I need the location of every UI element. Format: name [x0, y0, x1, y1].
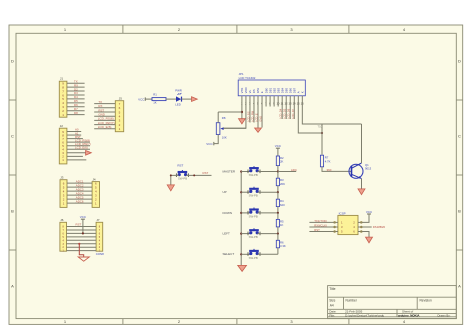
svg-text:RST: RST	[177, 164, 183, 168]
svg-text:LCD_E(6): LCD_E(6)	[98, 125, 112, 129]
svg-text:C: C	[11, 134, 14, 139]
svg-text:A: A	[11, 284, 14, 289]
svg-text:SW-PB: SW-PB	[249, 214, 258, 218]
wire button left to ground	[171, 175, 179, 185]
svg-text:J6: J6	[60, 218, 64, 222]
svg-text:Revision: Revision	[420, 298, 432, 302]
svg-text:9013: 9013	[365, 167, 372, 171]
connector J2	[59, 128, 67, 164]
wire button right	[186, 174, 212, 176]
power arrow J2 pin7	[86, 151, 92, 156]
svg-text:VCC: VCC	[275, 144, 282, 148]
wire to button SW4	[241, 212, 250, 214]
svg-text:SELECT: SELECT	[223, 252, 235, 256]
pushbutton SW6	[247, 252, 249, 256]
wire R1 to LED	[166, 98, 176, 100]
pushbutton SW4	[247, 211, 249, 215]
svg-text:RX0(CLK): RX0(CLK)	[314, 223, 327, 227]
svg-text:2K: 2K	[280, 160, 284, 164]
svg-text:J7: J7	[96, 218, 100, 222]
wire LCD pin3	[249, 96, 251, 123]
pushbutton S1	[175, 173, 177, 177]
ground symbol red triangle	[78, 257, 89, 261]
svg-text:B: B	[458, 209, 461, 214]
svg-text:PWR: PWR	[175, 89, 182, 93]
wire emitter to ground	[361, 179, 363, 189]
svg-text:MASTER: MASTER	[223, 169, 236, 173]
svg-text:D: D	[11, 59, 14, 64]
pushbutton SW5	[247, 232, 249, 236]
svg-text:620: 620	[280, 203, 285, 207]
wire collector	[361, 124, 363, 163]
transistor Q1	[349, 164, 363, 178]
svg-text:VCC: VCC	[80, 215, 87, 219]
svg-text:LCD_D7: LCD_D7	[291, 108, 295, 119]
wire chain segment	[277, 207, 279, 213]
power arrow PWR	[192, 97, 198, 102]
pin stubs ICSP	[334, 221, 338, 223]
zone tick marks	[122, 25, 124, 33]
svg-text:LCD_D4: LCD_D4	[279, 108, 283, 119]
pushbutton SW3	[247, 190, 249, 194]
wire chain segment	[277, 172, 279, 179]
potentiometer R8	[216, 123, 220, 135]
svg-text:LED: LED	[175, 103, 180, 107]
wire pot top	[217, 112, 219, 123]
svg-text:VCC: VCC	[138, 97, 145, 101]
wire LCD pin4	[253, 96, 255, 123]
wires LCD pins11-14 data	[281, 96, 283, 119]
svg-text:D8: D8	[74, 111, 78, 115]
wire button to resistor chain	[258, 212, 278, 214]
connector J5	[115, 101, 123, 132]
svg-text:LCD_RW: LCD_RW	[250, 110, 254, 121]
wire R7 to base	[322, 167, 352, 172]
title block frame	[328, 286, 457, 319]
wire button to resistor chain	[258, 253, 278, 255]
svg-text:B: B	[11, 209, 14, 214]
svg-text:A: A	[458, 284, 461, 289]
svg-text:GND: GND	[259, 116, 263, 122]
junction dot	[240, 253, 242, 255]
svg-text:20K: 20K	[280, 182, 285, 186]
wire ICSP pin3	[309, 226, 333, 228]
wire pin1 to pot top	[218, 111, 242, 113]
svg-text:SW-PB: SW-PB	[249, 194, 258, 198]
svg-text:arduino_NOKIA: arduino_NOKIA	[398, 313, 420, 317]
svg-text:Drawn By:: Drawn By:	[438, 313, 451, 317]
power ground arrow under LCD pin1	[239, 119, 246, 124]
svg-text:SW-PB: SW-PB	[249, 173, 258, 177]
resistor R3	[276, 178, 279, 186]
wire pot wiper	[224, 127, 246, 129]
svg-text:ICSP: ICSP	[339, 212, 346, 216]
wire junction to R7	[321, 124, 323, 155]
connector J1	[59, 81, 67, 117]
junction dot	[240, 233, 242, 235]
wire to button SW5	[241, 233, 250, 235]
LED D1	[176, 96, 181, 101]
power ground arrow under Q1	[358, 189, 365, 195]
junction dot pin1	[241, 111, 243, 113]
wire chain segment	[277, 186, 279, 193]
svg-text:RST: RST	[203, 171, 209, 175]
svg-text:J2: J2	[60, 124, 64, 128]
svg-text:File:: File:	[329, 313, 335, 317]
power ground arrow under ICSP pin6	[366, 237, 373, 243]
junction dot	[240, 212, 242, 214]
wires J6-J7	[67, 226, 97, 228]
svg-text:DS18B20: DS18B20	[373, 225, 386, 229]
svg-text:J3: J3	[60, 176, 64, 180]
svg-text:VCC: VCC	[366, 210, 373, 214]
svg-text:1K: 1K	[153, 101, 157, 105]
pin stubs JP1	[265, 96, 267, 107]
svg-text:R1: R1	[153, 92, 157, 96]
wire LCD pin6	[261, 96, 263, 128]
connector J6	[60, 222, 67, 251]
connector J7	[96, 222, 103, 251]
resistor R6	[276, 240, 279, 248]
ground wire red	[79, 244, 83, 257]
wires J1 pins	[67, 82, 85, 84]
wire pot bottom to VCC	[214, 135, 218, 144]
wire LCD pin1 VSS	[241, 96, 243, 119]
svg-text:LCD_E: LCD_E	[255, 113, 259, 122]
wire LCD pin2 to pot wiper	[224, 96, 246, 128]
junction dot	[240, 191, 242, 193]
wire VCC to R2	[277, 148, 279, 156]
wire ICSP pin6 to ground	[362, 232, 369, 238]
wire button to resistor chain	[258, 233, 278, 235]
wire ADC out	[278, 171, 296, 173]
svg-text:ADC6: ADC6	[76, 199, 84, 203]
svg-text:TX1(TXD): TX1(TXD)	[314, 219, 327, 223]
wire LCD pin15 to R7 junction	[298, 96, 322, 133]
svg-text:J1: J1	[60, 77, 64, 81]
wire button to resistor chain	[258, 191, 278, 193]
svg-text:DOWN: DOWN	[223, 211, 233, 215]
wire R2 to MASTER row	[277, 166, 279, 172]
svg-text:RST: RST	[76, 223, 82, 227]
junction dot	[82, 232, 84, 234]
inner border frame	[16, 33, 456, 318]
wires J2 pins	[67, 131, 81, 133]
junction dot	[240, 170, 242, 172]
svg-text:D: D	[458, 59, 461, 64]
wire button bus vertical	[240, 172, 242, 266]
svg-text:UP: UP	[223, 190, 227, 194]
svg-text:Size: Size	[329, 298, 335, 302]
wire VCC to R1	[145, 98, 152, 100]
wires J5 pins	[94, 103, 115, 105]
connector ICSP	[338, 215, 358, 234]
wire to button SW6	[241, 253, 250, 255]
wire to button SW3	[241, 191, 250, 193]
resistor R5	[276, 219, 279, 227]
junction dot red	[78, 243, 80, 245]
svg-text:1K: 1K	[280, 223, 284, 227]
svg-text:4.7K: 4.7K	[325, 159, 331, 163]
svg-text:J5: J5	[119, 97, 123, 101]
wire button to resistor chain	[258, 171, 278, 173]
wire chain segment	[277, 248, 279, 255]
wire ICSP pin5	[309, 231, 333, 233]
svg-text:LCD_E(6): LCD_E(6)	[75, 146, 88, 150]
connector JP1 LCD TC1602	[238, 80, 305, 96]
svg-text:A4: A4	[330, 304, 334, 308]
resistor R2	[276, 156, 279, 166]
wire chain segment	[277, 234, 279, 241]
pushbutton SW2	[247, 170, 249, 174]
wire ICSP pin2 to VCC	[362, 214, 369, 222]
svg-text:SW-PB: SW-PB	[249, 235, 258, 239]
junction dot backlight	[321, 132, 323, 134]
svg-text:R8: R8	[222, 116, 226, 120]
power ground arrow under LCD pin5	[255, 128, 262, 132]
wire chain segment	[277, 213, 279, 220]
svg-text:SW-PB: SW-PB	[249, 256, 258, 260]
power ground arrow under RST button	[167, 185, 174, 191]
wire LED to power arrow	[182, 98, 192, 100]
svg-text:Number: Number	[346, 298, 358, 302]
power ground arrow under button bus	[238, 265, 247, 271]
svg-text:ADC: ADC	[291, 168, 297, 172]
svg-text:SW-PB: SW-PB	[178, 177, 187, 181]
wires J3-J4	[67, 182, 92, 184]
svg-text:LEFT: LEFT	[223, 232, 231, 236]
wire chain segment	[277, 227, 279, 234]
resistor R4	[276, 199, 279, 206]
wire ICSP pin4	[362, 226, 371, 228]
svg-text:CON8: CON8	[96, 252, 104, 256]
svg-text:10K: 10K	[222, 135, 227, 139]
resistor R1	[152, 98, 166, 101]
svg-text:C: C	[458, 134, 461, 139]
svg-text:3.3K: 3.3K	[280, 244, 286, 248]
svg-text:Title: Title	[329, 287, 335, 291]
wire VCC stem	[82, 219, 84, 233]
wire chain segment	[277, 192, 279, 199]
wire LCD pin5	[257, 96, 259, 128]
svg-text:LCD_D5: LCD_D5	[283, 108, 287, 119]
svg-text:VCC: VCC	[206, 142, 213, 146]
svg-text:K: K	[301, 91, 305, 93]
connector J3	[60, 180, 67, 208]
wire ICSP pin1	[309, 221, 333, 223]
svg-text:LCD_RS: LCD_RS	[246, 111, 250, 122]
svg-text:LCD_D6: LCD_D6	[287, 108, 291, 119]
svg-text:360: 360	[327, 168, 332, 172]
wire to button SW2	[241, 171, 250, 173]
connector J4	[92, 182, 99, 208]
wire LCD pin16 to transistor collector net	[302, 96, 361, 124]
resistor R7	[320, 155, 323, 167]
svg-text:LCD TC1602: LCD TC1602	[239, 76, 256, 80]
svg-text:RST: RST	[314, 228, 320, 232]
svg-text:D:\yghm\Design\Turbine\ardu: D:\yghm\Design\Turbine\ardu	[345, 313, 384, 317]
